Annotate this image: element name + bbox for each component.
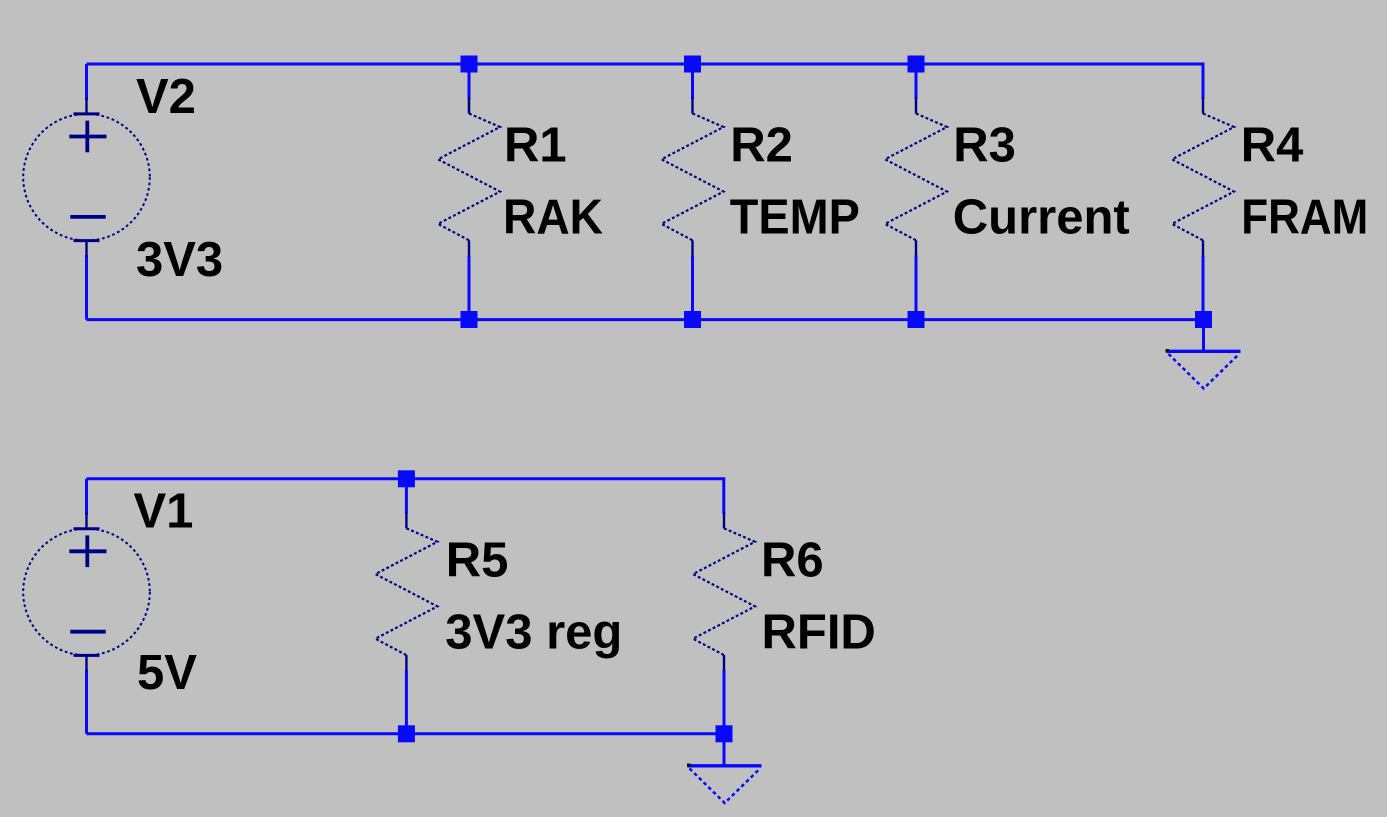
svg-text:V2: V2 [136, 70, 196, 124]
wire top rail circuit 1 [87, 64, 1204, 99]
svg-text:3V3: 3V3 [136, 233, 223, 287]
ground 2 corner dot [687, 764, 691, 768]
ground circuit 1 [1167, 326, 1241, 389]
junction node R4 bottom [1195, 311, 1212, 328]
junction node R2 bottom [684, 311, 701, 328]
svg-text:R4: R4 [1241, 119, 1304, 173]
resistor R6 [693, 512, 755, 671]
junction node R2 top [684, 56, 701, 73]
voltage source V2 [23, 98, 150, 257]
wire top rail circuit 2 [87, 479, 724, 514]
svg-text:V1: V1 [134, 485, 194, 539]
wire R3 top [915, 64, 918, 99]
junction node R1 top [461, 56, 478, 73]
wire R5 top [405, 479, 408, 514]
resistor R1 [438, 98, 500, 257]
svg-text:R5: R5 [446, 533, 509, 587]
resistor R2 [662, 98, 724, 257]
junction node R6 bottom [716, 725, 733, 742]
svg-text:RAK: RAK [503, 191, 603, 245]
ground 1 corner dot [1166, 349, 1170, 353]
junction node R5 bottom [398, 725, 415, 742]
svg-text:RFID: RFID [762, 605, 876, 659]
wire R2 bottom [691, 256, 694, 320]
svg-text:3V3 reg: 3V3 reg [445, 605, 622, 659]
resistor R4 [1172, 98, 1234, 257]
resistor R5 [375, 512, 437, 671]
wire left vertical upper V2 [85, 64, 88, 100]
junction node R3 top [908, 56, 925, 73]
wire left vertical lower V2 [85, 255, 88, 320]
svg-text:Current: Current [953, 191, 1130, 245]
svg-text:R6: R6 [761, 533, 824, 587]
wire R4 bottom [1202, 256, 1205, 320]
svg-text:R3: R3 [953, 119, 1016, 173]
wire bottom rail circuit 1 [87, 318, 1205, 321]
junction node R3 bottom [908, 311, 925, 328]
ground circuit 2 [688, 740, 762, 803]
junction node R1 bottom [461, 311, 478, 328]
svg-text:TEMP: TEMP [730, 191, 860, 245]
wire left vertical upper V1 [85, 479, 88, 515]
wire R2 top [691, 64, 694, 99]
voltage source V1 [23, 513, 150, 672]
wire R6 bottom [723, 670, 726, 734]
resistor R3 [885, 98, 947, 257]
wire R1 top [468, 64, 471, 99]
wire R3 bottom [915, 256, 918, 320]
svg-text:R2: R2 [730, 119, 793, 173]
wire R1 bottom [468, 256, 471, 320]
svg-text:FRAM: FRAM [1241, 191, 1368, 245]
wire R5 bottom [405, 670, 408, 734]
svg-text:5V: 5V [137, 646, 197, 700]
wire bottom rail circuit 2 [87, 732, 725, 735]
svg-text:R1: R1 [504, 119, 567, 173]
wire left vertical lower V1 [85, 670, 88, 734]
junction node R5 top [398, 470, 415, 487]
